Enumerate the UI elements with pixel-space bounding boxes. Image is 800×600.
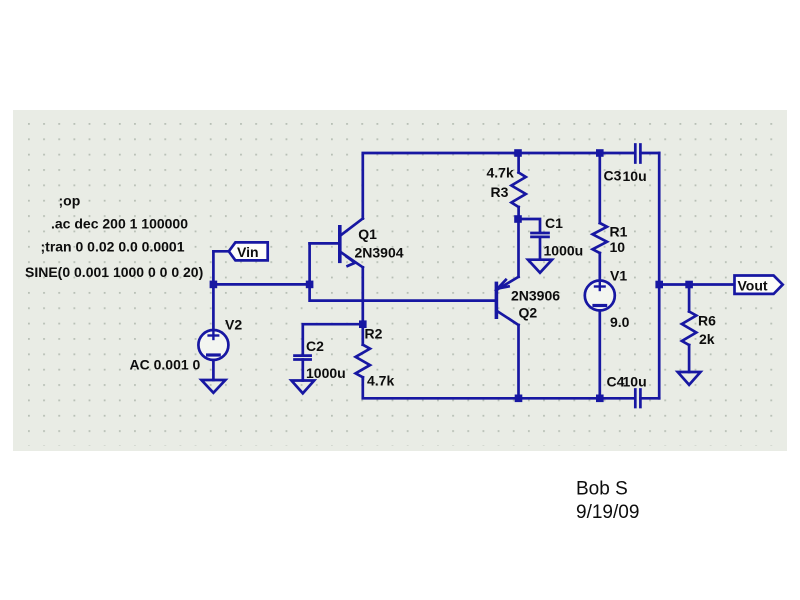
svg-text:2N3904: 2N3904 — [355, 245, 404, 261]
label C2 value — [306, 365, 346, 381]
node V1 bottom junction — [596, 395, 604, 403]
transistor Q1 — [340, 219, 363, 268]
svg-text:R3: R3 — [491, 184, 509, 200]
resistor R6 — [682, 285, 696, 373]
label C1 value — [544, 243, 584, 259]
label C1 name — [545, 215, 563, 231]
svg-text:;tran 0 0.02 0.0 0.0001: ;tran 0 0.02 0.0 0.0001 — [41, 239, 185, 255]
wire right rail — [658, 153, 661, 398]
ground C1 — [528, 260, 552, 273]
svg-text:V2: V2 — [225, 317, 242, 333]
node R3 top junction — [514, 149, 522, 157]
svg-text:10u: 10u — [623, 168, 647, 184]
svg-text:9.0: 9.0 — [610, 314, 630, 330]
wire C1 top — [519, 219, 540, 232]
svg-text:1000u: 1000u — [544, 243, 584, 259]
svg-text:SINE(0 0.001 1000 0 0 0 20): SINE(0 0.001 1000 0 0 0 20) — [25, 264, 203, 280]
label R3 name — [491, 184, 509, 200]
svg-text:AC 0.001 0: AC 0.001 0 — [130, 357, 201, 373]
label author — [576, 479, 628, 500]
svg-text:C2: C2 — [306, 338, 324, 354]
svg-text:Vout: Vout — [738, 278, 768, 294]
label Q1 name — [358, 226, 377, 242]
label Q2 name — [519, 305, 538, 321]
ground V2 — [201, 380, 225, 393]
wire C2 to ground — [301, 360, 304, 381]
transistor Q2 — [496, 277, 518, 325]
label R2 name — [365, 326, 383, 342]
capacitor C4 — [635, 390, 640, 408]
ground R6 — [678, 372, 701, 385]
svg-text:Q2: Q2 — [519, 305, 538, 321]
node base junction — [306, 281, 314, 289]
wire Q1 emitter down — [361, 267, 364, 324]
wire Vin node to Q1 base — [213, 250, 228, 253]
svg-text:C3: C3 — [604, 168, 622, 184]
node Q2 collector junction — [515, 395, 523, 403]
svg-text:C1: C1 — [545, 215, 563, 231]
resistor R2 — [356, 324, 370, 379]
label V1 value — [610, 314, 630, 330]
wire Q2 collector down — [517, 325, 520, 398]
node Vin junction — [210, 281, 218, 289]
label C2 name — [306, 338, 324, 354]
node R6 top junction — [685, 281, 693, 289]
wire C4 to right rail — [640, 397, 659, 400]
svg-text:2N3906: 2N3906 — [511, 288, 560, 304]
label V2 name — [225, 317, 242, 333]
wire Vin to base node — [213, 283, 309, 286]
label R1 name — [610, 224, 628, 240]
label R6 name — [698, 313, 716, 329]
label C4 value — [623, 374, 647, 390]
svg-text:10u: 10u — [623, 374, 647, 390]
node R3 bottom junction — [514, 215, 522, 223]
wire C2 top — [303, 324, 363, 354]
svg-text:Vin: Vin — [237, 244, 259, 260]
wire bottom rail — [363, 377, 634, 398]
label directive tran — [41, 239, 185, 255]
wire Vout — [659, 283, 734, 286]
label Q1 value — [355, 245, 404, 261]
svg-text:4.7k: 4.7k — [487, 165, 514, 181]
flag Vin — [229, 242, 268, 260]
label C3 name — [604, 168, 622, 184]
label date — [576, 502, 639, 523]
wire Q2 emitter up — [517, 219, 520, 277]
wire top rail — [363, 153, 634, 219]
label Q2 value — [511, 288, 560, 304]
resistor R1 — [593, 153, 607, 281]
svg-text:Q1: Q1 — [358, 226, 377, 242]
label V2 value — [130, 357, 201, 373]
svg-text:Bob S: Bob S — [576, 479, 628, 500]
label directive ac — [51, 216, 188, 232]
wire Vin vertical — [212, 251, 215, 330]
capacitor C1 — [532, 233, 549, 237]
svg-text:R1: R1 — [610, 224, 628, 240]
wire Q1 base — [310, 242, 340, 245]
wire V1 to bottom rail — [598, 311, 601, 399]
label R6 value — [699, 331, 715, 347]
capacitor C3 — [635, 145, 640, 163]
label R1 value — [610, 239, 626, 255]
label Vout text — [738, 278, 768, 294]
label Vin text — [237, 244, 259, 260]
svg-text:10: 10 — [610, 239, 626, 255]
label directive sine — [25, 264, 203, 280]
label C3 value — [623, 168, 647, 184]
wire C3 to right rail — [640, 152, 659, 155]
wire C1 to ground — [539, 237, 542, 260]
voltage source V1 — [585, 281, 615, 311]
node R2 top junction — [359, 320, 367, 328]
wire base feedback vertical — [310, 243, 497, 300]
svg-text:4.7k: 4.7k — [367, 373, 394, 389]
flag Vout — [735, 276, 783, 294]
capacitor C2 — [295, 356, 311, 360]
svg-text:9/19/09: 9/19/09 — [576, 502, 639, 523]
label directive op — [59, 193, 81, 209]
svg-text:V1: V1 — [610, 268, 627, 284]
svg-text:.ac dec 200 1 100000: .ac dec 200 1 100000 — [51, 216, 188, 232]
wire V2 to ground — [212, 360, 215, 380]
ground C2 — [291, 381, 314, 394]
node R1 top junction — [596, 149, 604, 157]
svg-text:R6: R6 — [698, 313, 716, 329]
label R3 value — [487, 165, 514, 181]
node Vout rail junction — [655, 281, 663, 289]
resistor R3 — [511, 153, 525, 219]
svg-text:;op: ;op — [59, 193, 81, 209]
svg-text:1000u: 1000u — [306, 365, 346, 381]
svg-text:2k: 2k — [699, 331, 715, 347]
label C4 name — [607, 374, 625, 390]
label V1 name — [610, 268, 627, 284]
schematic canvas background — [13, 110, 787, 451]
svg-text:R2: R2 — [365, 326, 383, 342]
voltage source V2 — [198, 330, 228, 360]
label R2 value — [367, 373, 394, 389]
